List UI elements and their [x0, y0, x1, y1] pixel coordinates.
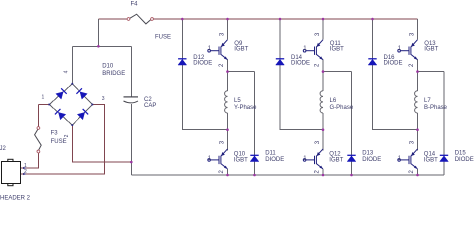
svg-text:3: 3 — [102, 96, 105, 102]
svg-text:IGBT: IGBT — [424, 47, 438, 53]
svg-text:IGBT: IGBT — [424, 157, 438, 163]
svg-text:B-Phase: B-Phase — [424, 105, 448, 111]
svg-text:1: 1 — [398, 156, 402, 162]
svg-text:BRIDGE: BRIDGE — [102, 71, 125, 77]
svg-text:G-Phase: G-Phase — [330, 105, 354, 111]
svg-text:IGBT: IGBT — [234, 157, 248, 163]
svg-text:DIODE: DIODE — [193, 61, 212, 67]
svg-text:FUSE: FUSE — [155, 34, 171, 40]
svg-text:J2: J2 — [0, 146, 7, 152]
svg-text:DIODE: DIODE — [384, 61, 403, 67]
svg-text:DIODE: DIODE — [455, 157, 474, 163]
svg-text:2: 2 — [315, 63, 321, 67]
svg-text:IGBT: IGBT — [234, 47, 248, 53]
svg-text:F3: F3 — [51, 130, 59, 136]
svg-text:4: 4 — [64, 70, 70, 73]
svg-text:CAP: CAP — [144, 103, 156, 109]
svg-text:IGBT: IGBT — [330, 47, 344, 53]
svg-text:2: 2 — [219, 169, 225, 173]
svg-text:DIODE: DIODE — [362, 157, 381, 163]
svg-text:DIODE: DIODE — [291, 61, 310, 67]
svg-text:2: 2 — [24, 169, 27, 175]
svg-text:DIODE: DIODE — [265, 157, 284, 163]
svg-text:Y-Phase: Y-Phase — [234, 105, 257, 111]
svg-text:FUSE: FUSE — [51, 139, 67, 145]
svg-text:1: 1 — [42, 94, 45, 100]
svg-text:2: 2 — [219, 63, 225, 67]
svg-text:D13: D13 — [362, 151, 374, 157]
svg-text:1: 1 — [303, 156, 307, 162]
svg-text:D11: D11 — [265, 151, 276, 157]
svg-text:2: 2 — [409, 169, 415, 173]
svg-text:L5: L5 — [234, 98, 241, 104]
svg-text:3: 3 — [220, 140, 226, 144]
svg-text:D15: D15 — [455, 151, 467, 157]
svg-text:3: 3 — [410, 32, 416, 36]
svg-text:L7: L7 — [424, 98, 431, 104]
svg-text:3: 3 — [315, 32, 321, 36]
svg-text:3: 3 — [410, 140, 416, 144]
svg-text:2: 2 — [64, 134, 70, 137]
svg-text:1: 1 — [208, 156, 212, 162]
svg-text:D10: D10 — [102, 64, 114, 70]
svg-text:3: 3 — [220, 32, 226, 36]
svg-text:2: 2 — [315, 169, 321, 173]
svg-text:L6: L6 — [330, 98, 337, 104]
svg-text:2: 2 — [409, 63, 415, 67]
svg-text:IGBT: IGBT — [329, 157, 343, 163]
svg-text:HEADER 2: HEADER 2 — [0, 196, 31, 202]
svg-text:3: 3 — [315, 140, 321, 144]
svg-text:F4: F4 — [131, 2, 139, 8]
